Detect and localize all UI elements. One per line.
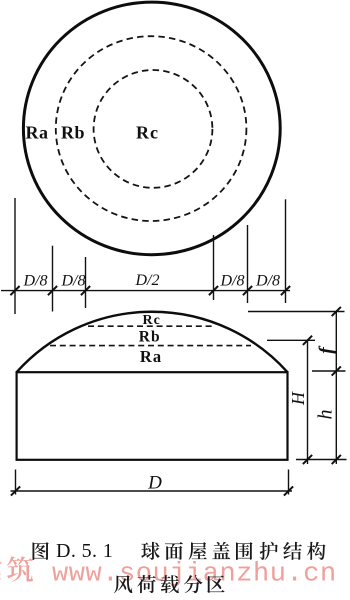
dimension line H (vertical) xyxy=(307,340,309,464)
tick at x=15 xyxy=(10,286,19,295)
svg-text:D/8: D/8 xyxy=(255,273,280,290)
extension stub bottom-left xyxy=(15,470,17,495)
tick bottom of h xyxy=(332,455,341,464)
svg-text:D/8: D/8 xyxy=(61,273,86,290)
watermark partial char at left edge xyxy=(0,556,2,581)
svg-text:www.soujianzhu.cn: www.soujianzhu.cn xyxy=(52,560,337,590)
extension line x=285.5 xyxy=(285,199,287,303)
elevation wall rectangle xyxy=(17,372,288,460)
watermark char 筑 xyxy=(7,556,33,582)
svg-text:D: D xyxy=(147,473,162,494)
eave extension line xyxy=(312,370,346,372)
tick f/h boundary xyxy=(332,366,341,375)
svg-text:Rb: Rb xyxy=(139,329,161,346)
caption char 图 xyxy=(32,542,48,560)
extension line x=15 xyxy=(14,198,16,314)
dimension line D xyxy=(11,490,293,492)
svg-text:Rc: Rc xyxy=(143,313,161,328)
svg-text:H: H xyxy=(288,391,308,406)
tick at x=52.5 xyxy=(48,286,57,295)
extension stub bottom-right xyxy=(288,470,290,495)
svg-text:Rb: Rb xyxy=(61,122,85,142)
tick right of D xyxy=(284,486,293,495)
extension line x=247.5 xyxy=(247,225,249,303)
svg-text:Ra: Ra xyxy=(140,347,162,366)
dashed circle Rb zone boundary xyxy=(56,36,247,221)
elevation dome arc xyxy=(17,312,288,372)
svg-text:Rc: Rc xyxy=(136,122,159,142)
svg-text:D/8: D/8 xyxy=(220,273,245,290)
tick bottom of H xyxy=(303,455,312,464)
horizontal dimension line under plan xyxy=(1,290,290,292)
extension line x=52.5 xyxy=(52,246,54,312)
dashed circle Rc zone boundary xyxy=(94,70,213,188)
caption line1 chars 球面屋盖围护结构 xyxy=(141,542,160,560)
svg-text:Ra: Ra xyxy=(26,122,49,142)
caption line2 chars 风荷载分区 xyxy=(114,575,132,593)
svg-text:D/2: D/2 xyxy=(135,272,160,289)
H top extension line xyxy=(267,339,315,341)
apex extension line xyxy=(248,311,345,313)
dashed level line Rc (elevation) xyxy=(88,325,215,327)
tick top of f xyxy=(332,307,341,316)
svg-text:f: f xyxy=(316,345,338,354)
svg-text:D. 5. 1: D. 5. 1 xyxy=(56,540,113,562)
extension line x=85.5 xyxy=(85,257,87,308)
tick at x=85.5 xyxy=(81,286,90,295)
dashed level line Rb (elevation) xyxy=(50,345,251,347)
tick at x=247.5 xyxy=(243,286,252,295)
tick left of D xyxy=(11,486,20,495)
tick top of H xyxy=(303,336,312,345)
extension line x=213.5 xyxy=(213,235,215,300)
base extension line (right) xyxy=(296,459,347,461)
tick at x=285.5 xyxy=(281,286,290,295)
svg-text:h: h xyxy=(315,410,337,420)
outer circle (dome plan outline) xyxy=(23,2,280,255)
svg-text:D/8: D/8 xyxy=(23,273,48,290)
dimension line f+h (vertical) xyxy=(335,312,337,465)
tick at x=213.5 xyxy=(209,286,218,295)
